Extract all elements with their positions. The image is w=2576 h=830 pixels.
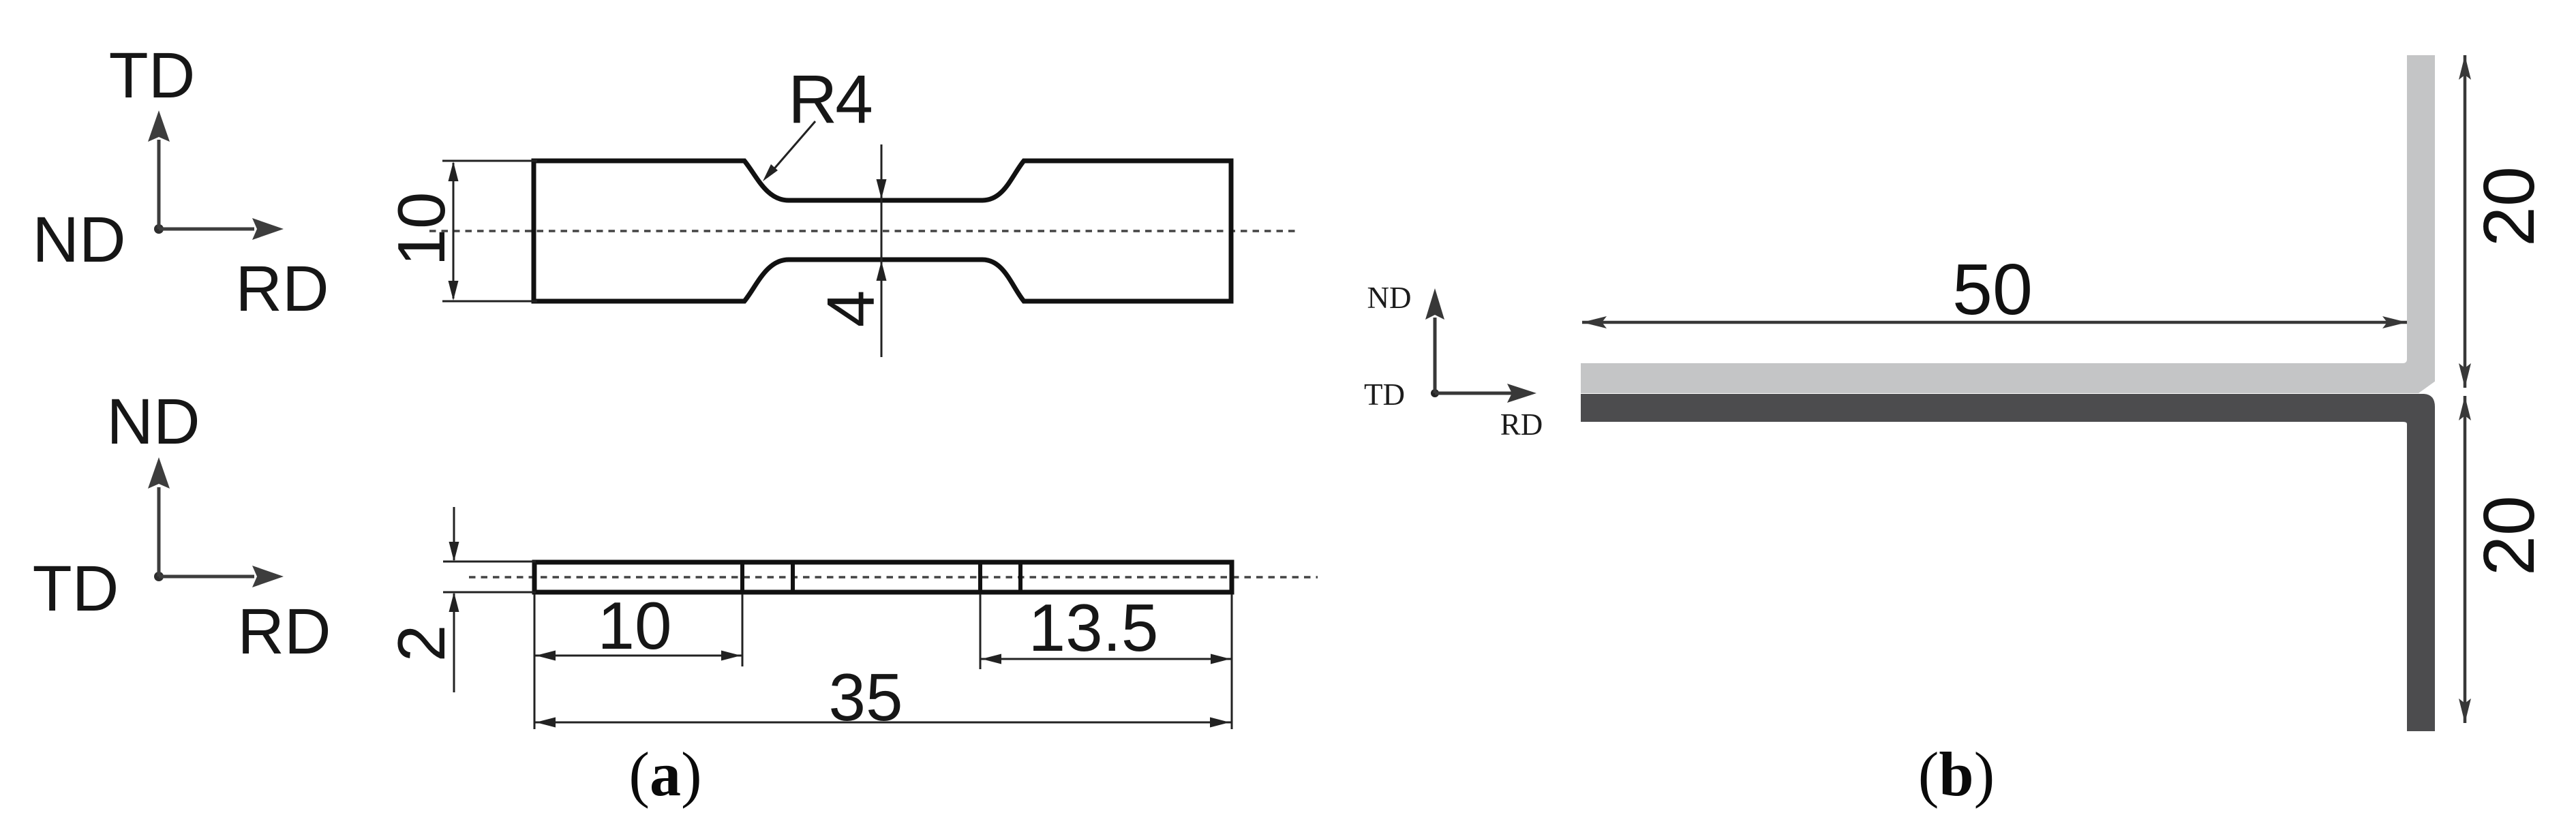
wire A2 vertical arrowhead (148, 457, 170, 489)
svg-text:10: 10 (597, 588, 671, 663)
side view divider 4 (1018, 560, 1022, 594)
wire A2 vertical shaft (157, 487, 161, 577)
svg-text:20: 20 (2469, 166, 2549, 247)
svg-text:(b): (b) (1918, 739, 1995, 809)
svg-text:35: 35 (828, 660, 903, 735)
side view divider 3 (978, 560, 982, 594)
node origin A1 (154, 224, 164, 234)
svg-text:TD: TD (1364, 378, 1405, 412)
side view divider 1 (740, 560, 744, 594)
wire centerline side view (dashed) (469, 576, 1318, 579)
light gray L-bar (upper sheet) (1581, 55, 2435, 393)
svg-text:ND: ND (32, 204, 125, 276)
svg-text:10: 10 (384, 191, 459, 266)
wire A2 horizontal shaft (159, 575, 254, 579)
node origin A2 (154, 572, 164, 581)
junction white notch (2419, 381, 2436, 393)
wire centerline top view (dashed) (429, 230, 1295, 232)
wire A1 horizontal shaft (159, 228, 254, 231)
dimension 35 (534, 660, 1231, 735)
svg-text:(a): (a) (628, 739, 701, 809)
svg-text:RD: RD (235, 253, 329, 325)
dimension 20 lower (2459, 396, 2549, 723)
wire B vertical shaft (1434, 318, 1437, 393)
dimension 10 (top view width) (384, 161, 537, 301)
wire B horizontal arrowhead (1507, 384, 1536, 403)
dimension 50 (1582, 249, 2407, 330)
dark gray L-bar (lower sheet) (1581, 394, 2435, 731)
specimen top view outline (534, 161, 1231, 301)
axes A1 (TD/ND/RD) upper-left (32, 40, 329, 325)
extension lines side view (534, 594, 1232, 729)
svg-text:R4: R4 (788, 61, 871, 138)
wire A1 vertical arrowhead (148, 110, 170, 142)
wire B vertical arrowhead (1425, 288, 1444, 320)
svg-text:2: 2 (384, 625, 459, 662)
annotation R4 with leader (763, 61, 871, 181)
svg-text:TD: TD (33, 553, 119, 625)
dimension 10 (side view grip length) (534, 588, 742, 663)
svg-text:RD: RD (237, 596, 331, 668)
dimension 4 (gauge width) (813, 144, 888, 357)
svg-text:RD: RD (1500, 408, 1543, 442)
dimension 2 (thickness) (384, 507, 536, 692)
svg-text:4: 4 (813, 290, 888, 328)
side view bar outline (534, 562, 1232, 592)
side view divider 2 (791, 560, 795, 594)
svg-text:ND: ND (1367, 281, 1412, 315)
wire B horizontal shaft (1435, 392, 1518, 395)
wire A1 horizontal arrowhead (252, 218, 284, 240)
svg-text:ND: ND (106, 386, 200, 458)
dimension 13.5 (980, 590, 1232, 665)
specimen side view (469, 560, 1318, 594)
axes A2 (ND/TD/RD) lower-left (33, 386, 331, 668)
svg-text:20: 20 (2469, 495, 2549, 576)
axes B (ND/TD/RD) panel b (1364, 281, 1543, 442)
node origin B (1431, 389, 1439, 397)
dimension 20 upper (2459, 55, 2549, 388)
wire A1 vertical shaft (157, 140, 161, 229)
specimen top view (429, 161, 1295, 301)
svg-text:TD: TD (109, 40, 196, 112)
wire A2 horizontal arrowhead (252, 566, 284, 587)
svg-text:13.5: 13.5 (1029, 590, 1159, 665)
svg-text:50: 50 (1952, 249, 2033, 330)
